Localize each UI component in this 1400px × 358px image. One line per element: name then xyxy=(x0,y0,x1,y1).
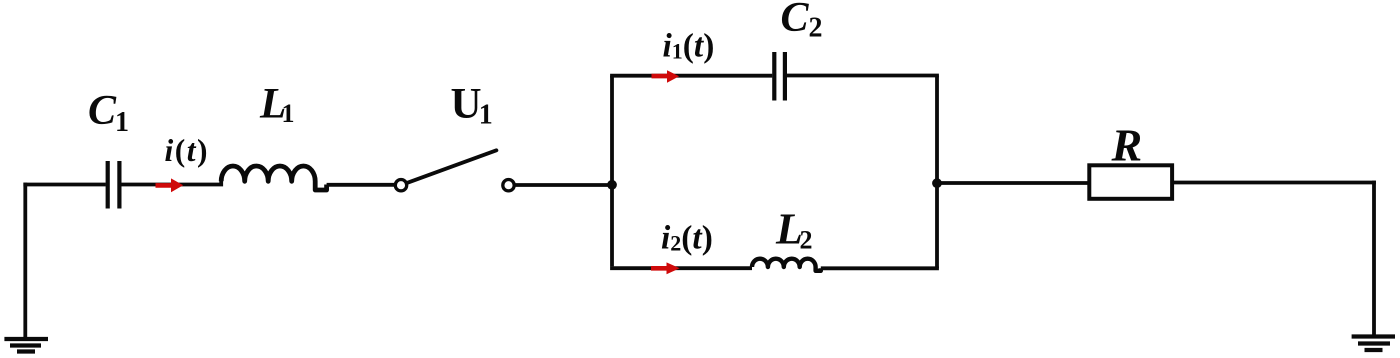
svg-text:i2(t): i2(t) xyxy=(661,220,713,257)
wire C1 to L1 xyxy=(122,181,222,185)
svg-text:R: R xyxy=(1111,119,1143,170)
wire resistor to right xyxy=(1172,181,1376,185)
inductor L1 xyxy=(221,166,326,190)
ground right xyxy=(1352,337,1395,351)
switch terminal circle left xyxy=(395,180,406,191)
wire parallel box right vertical xyxy=(935,76,939,269)
wire bottom branch left xyxy=(610,266,752,270)
svg-text:C: C xyxy=(781,0,810,41)
switch lever U1 xyxy=(407,150,496,183)
inductor L2 xyxy=(752,259,821,271)
wire parallel box left vertical xyxy=(610,76,614,267)
arrow i1(t) xyxy=(652,70,680,83)
node A junction dot xyxy=(607,180,617,190)
svg-text:1: 1 xyxy=(282,99,295,128)
capacitor C2 xyxy=(774,52,785,101)
svg-text:2: 2 xyxy=(809,13,823,44)
svg-text:U: U xyxy=(451,81,482,128)
wire L1 to switch xyxy=(327,183,394,187)
wire right vertical xyxy=(1372,181,1376,336)
wire left vertical xyxy=(23,183,27,337)
node B junction dot xyxy=(932,178,942,188)
resistor R xyxy=(1089,165,1172,199)
svg-text:i1(t): i1(t) xyxy=(663,28,715,65)
svg-text:C: C xyxy=(88,88,117,134)
svg-text:i(t): i(t) xyxy=(165,133,210,168)
svg-text:1: 1 xyxy=(115,107,129,138)
wire left horizontal xyxy=(23,183,105,187)
wire switch to node A xyxy=(516,183,613,187)
capacitor C1 xyxy=(108,161,120,209)
switch terminal circle right xyxy=(503,180,514,191)
wire top branch right xyxy=(787,74,939,78)
wire bottom branch right xyxy=(821,266,939,270)
ground left xyxy=(4,339,48,352)
wire node B to resistor xyxy=(937,181,1089,185)
wire top branch left xyxy=(610,74,772,78)
arrow i(t) xyxy=(156,178,184,192)
svg-text:2: 2 xyxy=(800,225,813,254)
arrow i2(t) xyxy=(651,262,680,274)
svg-text:1: 1 xyxy=(479,99,493,130)
